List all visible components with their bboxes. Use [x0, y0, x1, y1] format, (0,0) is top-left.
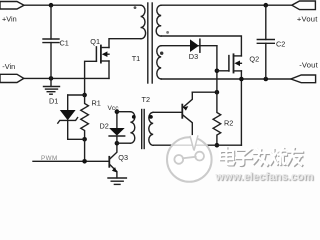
ground (Q3 emitter) — [108, 177, 126, 179]
T2 right winding — [149, 112, 153, 145]
node C2 bottom — [264, 77, 269, 82]
wire Q1 gate down to node A — [85, 61, 97, 95]
svg-text:-Vout: -Vout — [299, 60, 318, 69]
diode D1 (zener) — [49, 95, 78, 139]
svg-text:+Vout: +Vout — [297, 15, 318, 24]
transformer T2 — [130, 95, 153, 149]
svg-text:T1: T1 — [132, 54, 141, 63]
svg-text:+Vin: +Vin — [2, 15, 17, 24]
T1 phase dot secondary upper — [166, 31, 169, 34]
svg-text:Q1: Q1 — [90, 37, 100, 46]
wire gate tap to Q2 gate — [217, 70, 229, 72]
terminal -Vout — [291, 75, 316, 83]
T1 phase dot secondary lower — [160, 52, 163, 55]
transistor Q1 (N-MOSFET) — [90, 37, 109, 63]
terminal -Vin — [0, 74, 24, 82]
transistor Q2 (N-MOSFET sync rectifier) — [229, 54, 259, 72]
resistor R1 — [81, 95, 101, 139]
wire Vcc to T2 left winding top — [117, 111, 130, 113]
node A — [82, 93, 87, 98]
wire top rail right — [161, 4, 292, 6]
wire node A to D1 — [68, 94, 85, 96]
wire top rail left — [24, 4, 141, 6]
T1 primary winding — [141, 5, 146, 39]
wire PNP emitter to R2 top node — [192, 91, 217, 93]
wire upper secondary bottom to Q2 drain — [161, 36, 241, 56]
svg-text:T2: T2 — [142, 95, 151, 104]
node Q3 collector / D2 / T2 — [115, 141, 120, 146]
T1 secondary upper winding — [156, 5, 161, 36]
wire node to T2 left winding bottom — [117, 142, 130, 144]
svg-text:D2: D2 — [100, 121, 109, 130]
svg-text:C2: C2 — [276, 40, 285, 49]
resistor R2 — [213, 92, 233, 145]
wire Q1 source down to -Vin rail — [108, 61, 110, 78]
svg-text:Q2: Q2 — [249, 55, 259, 64]
node B — [82, 137, 87, 142]
svg-text:-Vin: -Vin — [2, 62, 15, 71]
wire -Vout rail — [161, 78, 291, 80]
node junction C1 bottom / ground — [49, 76, 54, 81]
T2 core — [141, 110, 143, 149]
ground (input) — [50, 78, 52, 86]
wire PWM line — [33, 160, 109, 162]
T1 core — [147, 3, 149, 83]
wire -Vin rail — [24, 77, 109, 79]
watermark logo circle — [167, 135, 212, 182]
wire Q2 source riser — [240, 71, 242, 145]
wire Q1 drain to T1 primary bottom — [109, 39, 141, 48]
svg-text:R2: R2 — [224, 119, 233, 128]
T2 left winding — [130, 112, 134, 144]
transistor Q3 (NPN) — [109, 143, 128, 178]
diode D3 — [189, 39, 217, 61]
wire lower secondary top to D3 — [161, 45, 190, 47]
wire T2 right top to PNP base — [153, 111, 182, 113]
node Q2 gate tap — [215, 69, 220, 74]
wire bottom return: T2 right bottom to Q2 source riser — [153, 144, 241, 146]
T2 phase dot left — [132, 115, 136, 119]
svg-text:PWM: PWM — [41, 155, 58, 162]
T1 secondary lower winding — [157, 46, 161, 79]
svg-text:C1: C1 — [60, 38, 69, 47]
node junction C1 top — [49, 3, 54, 8]
T2 phase dot right — [149, 115, 153, 119]
terminal +Vin — [0, 2, 24, 10]
wire D1 bottom to node B — [68, 138, 85, 140]
svg-text:D3: D3 — [189, 52, 198, 61]
node Vcc — [115, 109, 120, 114]
diode D2 — [100, 112, 125, 144]
node C2 top — [264, 3, 269, 8]
T1 phase dot primary — [134, 6, 137, 9]
node R2 top — [215, 90, 220, 95]
node R2 bottom — [215, 143, 220, 148]
svg-text:Q3: Q3 — [118, 153, 128, 162]
wire node B down to PWM line — [84, 139, 86, 161]
svg-text:D1: D1 — [49, 97, 58, 106]
capacitor C1 — [50, 5, 52, 39]
transformer T1 — [132, 3, 169, 83]
terminal +Vout — [292, 1, 316, 10]
transistor (PNP, T2 drive) — [182, 92, 192, 145]
svg-text:www.elecfans.com: www.elecfans.com — [215, 171, 314, 183]
svg-text:R1: R1 — [92, 98, 101, 107]
capacitor C2 — [265, 5, 267, 39]
wire D3 cathode down to gate node — [216, 46, 218, 92]
node PWM junction — [82, 159, 87, 164]
node Q2 source on rail — [239, 77, 244, 82]
